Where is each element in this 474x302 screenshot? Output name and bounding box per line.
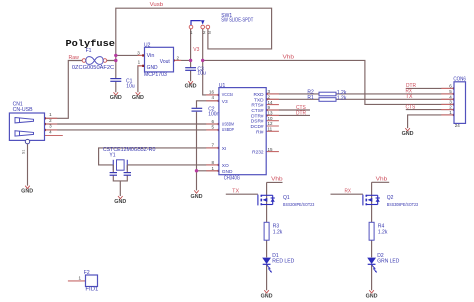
svg-text:CN-USB: CN-USB <box>13 107 34 113</box>
svg-text:Vhb: Vhb <box>376 176 388 182</box>
ground under CON6 pin1 <box>402 128 414 137</box>
wire resonator ground bus <box>113 175 127 196</box>
wire Vhb supply bar and Q2 drain chain down to LED D2 and ground <box>372 182 390 290</box>
wire U1 right pin stubs <box>266 94 279 152</box>
svg-text:DSR#: DSR# <box>251 119 264 125</box>
svg-text:Raw: Raw <box>69 55 80 61</box>
svg-text:DTR: DTR <box>296 110 306 116</box>
svg-text:FID1: FID1 <box>85 287 98 293</box>
transistor Q1 BSS308PE <box>258 195 315 207</box>
svg-text:15: 15 <box>268 147 274 152</box>
wire CN1 shield to ground <box>27 144 29 186</box>
pin stubs red overlays <box>45 55 455 281</box>
svg-text:Vusb: Vusb <box>150 2 164 8</box>
svg-text:GND: GND <box>402 131 414 137</box>
diode D1 RED LED <box>262 253 294 273</box>
svg-text:TX: TX <box>406 94 414 100</box>
svg-text:R1: R1 <box>307 95 314 101</box>
svg-text:10u: 10u <box>126 83 135 89</box>
crystal Y1 resonator <box>103 147 156 175</box>
svg-text:USBDM: USBDM <box>222 121 234 127</box>
resistor R1 <box>307 95 346 102</box>
svg-text:BSS308PE/SOT23: BSS308PE/SOT23 <box>387 202 419 207</box>
wire CN1 pin stubs <box>45 118 63 135</box>
svg-text:11: 11 <box>268 127 273 132</box>
resistor R4 <box>369 222 388 240</box>
svg-text:GND: GND <box>114 199 126 205</box>
svg-text:16: 16 <box>209 90 215 95</box>
svg-text:DCD#: DCD# <box>251 124 264 130</box>
svg-text:RED LED: RED LED <box>272 259 294 265</box>
capacitor C2 <box>192 106 220 117</box>
connector CON6 <box>449 76 466 128</box>
node Vusb tap junction <box>114 54 117 57</box>
transistor Q2 BSS308PE <box>363 195 419 207</box>
wire DTR stub at CON6 pin6 <box>406 87 454 89</box>
svg-text:XO: XO <box>222 163 229 169</box>
pin connection dots <box>44 54 456 172</box>
svg-text:VCC5I: VCC5I <box>222 92 233 98</box>
wire FID1 pin stub <box>68 280 86 282</box>
wire U1 V3 pin4 to C2 <box>197 101 219 108</box>
svg-text:S1: S1 <box>22 150 26 154</box>
svg-text:F2: F2 <box>84 270 90 276</box>
svg-text:V3: V3 <box>222 99 228 105</box>
svg-text:100n: 100n <box>208 111 219 117</box>
svg-text:CH340G: CH340G <box>224 175 240 181</box>
svg-text:RXD: RXD <box>253 92 264 98</box>
wire V3 net: U2 Vout to junction and switch pin1 <box>174 29 191 60</box>
wire C3 leg <box>190 60 192 81</box>
svg-text:Vout: Vout <box>160 59 171 65</box>
wire Vhb to U1 VCC5I pin16 <box>203 60 219 95</box>
svg-text:TX: TX <box>232 188 240 194</box>
wire CTS net stub from U1 pin9 <box>266 109 310 111</box>
svg-text:1.2k: 1.2k <box>378 229 388 235</box>
svg-text:GND: GND <box>147 65 158 71</box>
ground under U1 <box>191 190 203 200</box>
op-amp U1 CH340G <box>209 83 273 182</box>
wire C1 leg <box>115 61 117 93</box>
wire TX gate net to Q1 <box>226 193 258 195</box>
wire CON6 pin1 to ground <box>408 115 454 128</box>
svg-text:U2: U2 <box>144 42 151 48</box>
svg-text:F1: F1 <box>86 48 92 54</box>
wire Vusb loop from fuse output up over to switch pin 3 <box>107 8 272 60</box>
op-amp U2 MCP1703 regulator <box>137 42 179 78</box>
wire USBDP net CN1 pin3 to U1 pin5 <box>45 129 219 131</box>
svg-text:GRN LED: GRN LED <box>377 259 399 265</box>
wire U1 left pin stubs <box>206 95 219 171</box>
svg-text:XI: XI <box>222 146 227 152</box>
svg-text:SW SLIDE-SPDT: SW SLIDE-SPDT <box>221 18 253 24</box>
svg-text:Q2: Q2 <box>387 195 394 201</box>
svg-text:13: 13 <box>268 111 274 116</box>
wire XI net U1 pin7 to resonator left <box>99 148 219 165</box>
svg-text:Y1: Y1 <box>109 152 115 158</box>
wire DTR net stub from U1 pin13 <box>266 114 310 116</box>
wire RX net: U1 RXD pin3 through R2 to CON6 pin5 <box>266 93 454 95</box>
wire U2 pin stubs <box>138 55 182 65</box>
capacitor C3 <box>185 66 206 76</box>
svg-text:10: 10 <box>268 116 274 121</box>
svg-text:Vhb: Vhb <box>271 176 283 182</box>
ground under C3 <box>185 81 197 90</box>
svg-text:GND: GND <box>222 169 233 175</box>
svg-text:CTS: CTS <box>406 104 416 110</box>
svg-text:Vin: Vin <box>147 53 155 59</box>
node Vusb fuse junction <box>114 59 117 62</box>
svg-text:GND: GND <box>191 194 203 200</box>
svg-text:14: 14 <box>268 100 274 105</box>
svg-text:24: 24 <box>455 123 461 128</box>
wire CON6 pin stubs <box>441 88 454 115</box>
svg-text:12: 12 <box>268 121 274 126</box>
svg-text:GND: GND <box>21 189 33 195</box>
svg-text:GND: GND <box>185 84 197 90</box>
wire C2 bottom to U1 GND pin1 junction and ground <box>197 112 219 191</box>
wire Vusb net: CN1 pin1 riser to fuse <box>45 61 83 119</box>
svg-text:GND: GND <box>261 293 273 299</box>
svg-text:CTS#: CTS# <box>251 108 264 114</box>
svg-text:10u: 10u <box>197 71 206 77</box>
capacitor C1 <box>110 78 135 89</box>
svg-text:0ZCG0050AF2C: 0ZCG0050AF2C <box>72 65 115 71</box>
svg-text:USBDP: USBDP <box>222 127 234 133</box>
svg-text:BSS308PE/SOT23: BSS308PE/SOT23 <box>283 202 315 207</box>
junction dots <box>114 54 204 173</box>
wire Vusb tap to U2 Vin pin 3 <box>116 54 145 56</box>
svg-text:U1: U1 <box>219 83 226 89</box>
ground CN1 shield <box>21 186 33 195</box>
ground under D2 <box>366 290 378 299</box>
node V3 junction <box>189 59 192 62</box>
diode D2 GRN LED <box>367 253 399 273</box>
transistor SW1 slide switch <box>189 13 253 35</box>
svg-text:DTR#: DTR# <box>251 113 264 119</box>
svg-text:V3: V3 <box>193 47 199 53</box>
connector CN1 CN-USB <box>9 102 52 155</box>
svg-text:RX: RX <box>345 188 352 194</box>
svg-text:CON6: CON6 <box>453 76 466 82</box>
wire U2 GND pin1 to ground <box>138 66 145 93</box>
svg-text:GND: GND <box>132 95 144 101</box>
ground under C1 <box>110 92 122 101</box>
svg-text:Q1: Q1 <box>283 195 290 201</box>
svg-text:R232: R232 <box>252 150 264 156</box>
ground under U2 pin1 <box>132 92 144 101</box>
wire TX net: U1 TXD pin2 through R1 to CON6 pin4 <box>266 98 454 100</box>
svg-text:RTS#: RTS# <box>251 103 264 109</box>
wire RX gate net to Q2 <box>331 193 363 195</box>
node Vhb junction <box>201 59 204 62</box>
wire XO net U1 pin8 to resonator right <box>127 164 219 166</box>
svg-text:GND: GND <box>110 95 122 101</box>
resistor R2 <box>307 89 346 95</box>
svg-text:TXD: TXD <box>254 97 264 103</box>
resistor F2 FID1 fiducial <box>79 270 99 293</box>
svg-text:GND: GND <box>366 293 378 299</box>
wire CTS stub at CON6 pin2 <box>406 109 454 111</box>
ground under D1 <box>261 290 273 299</box>
svg-text:Vhb: Vhb <box>283 54 295 60</box>
svg-text:RI#: RI# <box>256 129 264 135</box>
ground under Y1 <box>114 196 126 205</box>
svg-text:1.2k: 1.2k <box>337 96 347 102</box>
svg-text:MCP1703: MCP1703 <box>144 72 167 78</box>
wire Vhb net: switch pin2 down, rail right, down to CON6 pin3 <box>203 29 454 104</box>
wire USBDM net CN1 pin2 to U1 pin6 <box>45 123 219 125</box>
resistor R3 <box>264 222 283 240</box>
node U1 GND junction <box>195 169 198 172</box>
wire Vhb supply bar and Q1 drain chain down to LED D1 and ground <box>267 182 283 290</box>
svg-text:1.2k: 1.2k <box>273 229 283 235</box>
fuse F1 polyfuse <box>66 38 116 71</box>
